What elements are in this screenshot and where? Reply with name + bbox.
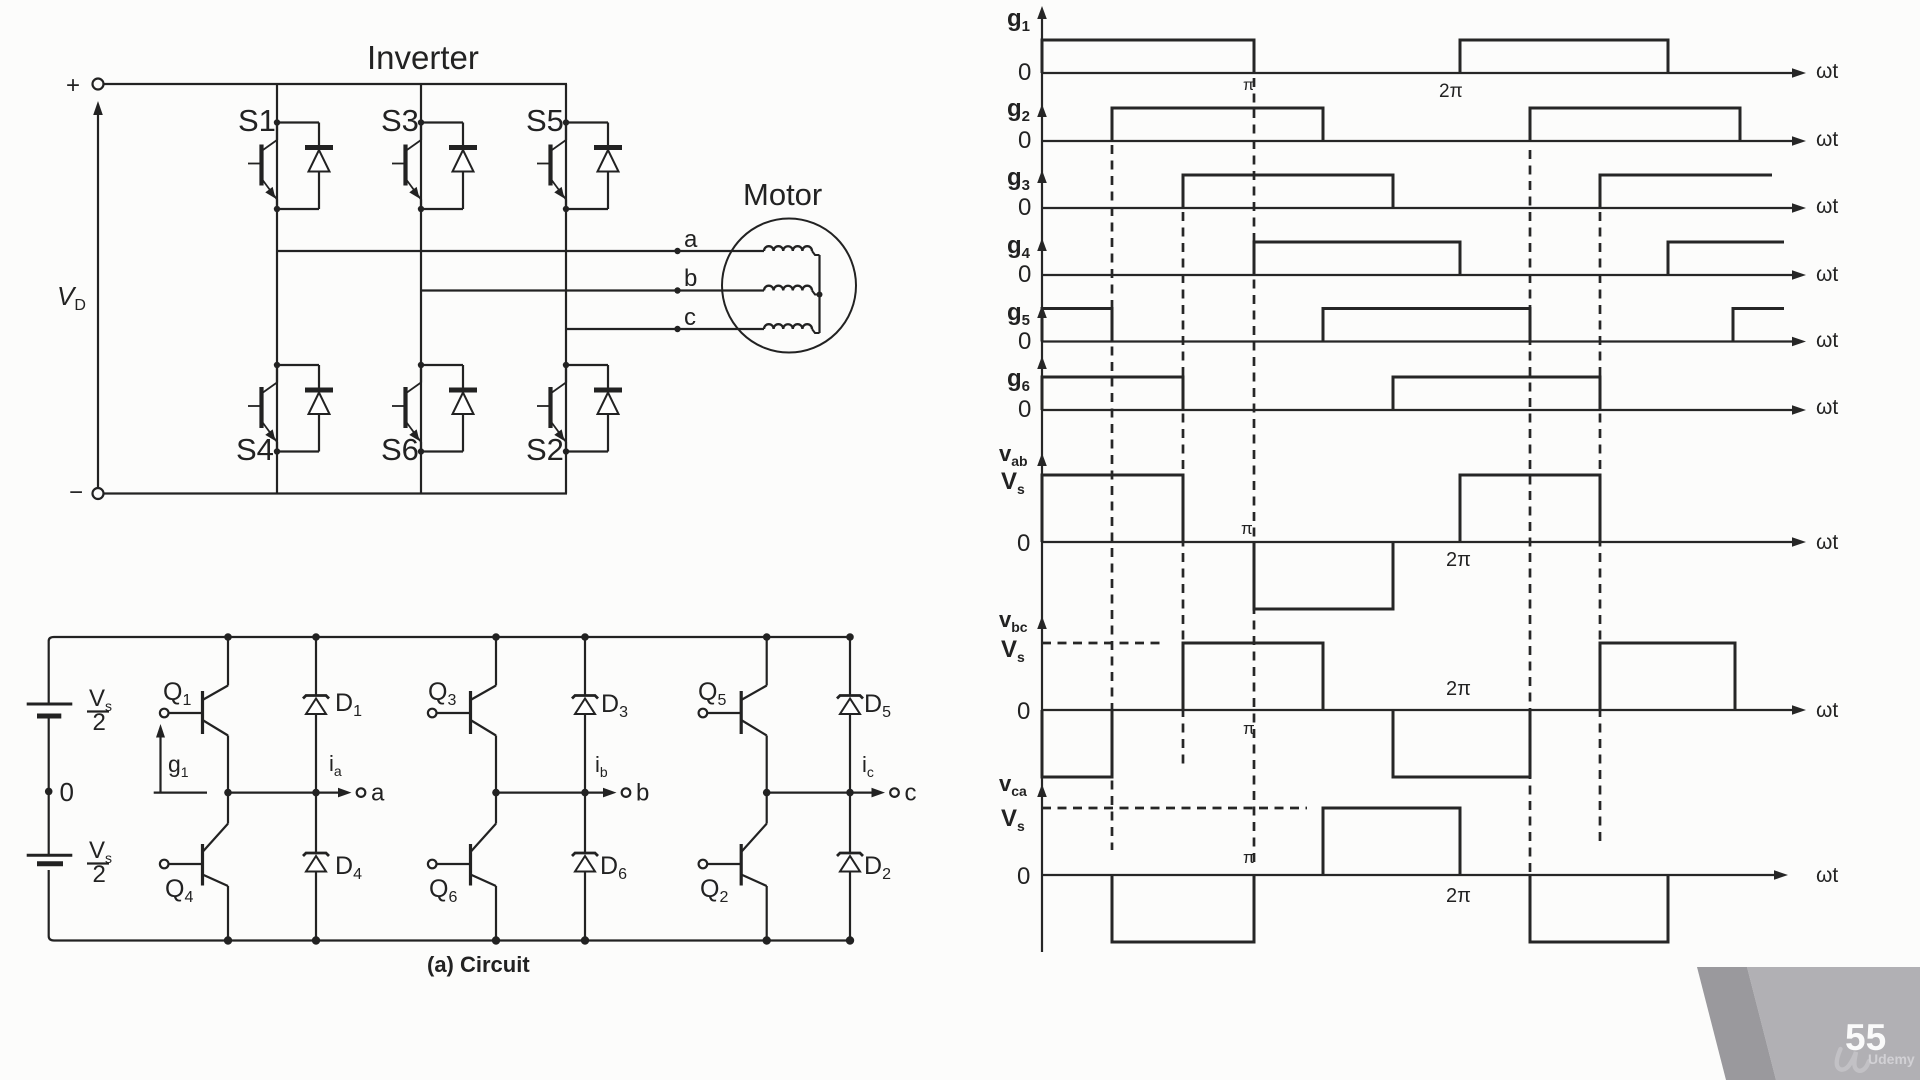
svg-text:2π: 2π [1446, 885, 1471, 907]
wire phase b mid node [496, 791, 585, 793]
freewheel diode of S3 [421, 123, 477, 210]
node b dot [674, 287, 680, 293]
motor winding b [764, 286, 820, 295]
svg-text:c: c [684, 304, 696, 331]
waveform vab [1042, 475, 1600, 609]
axis g5 [1042, 337, 1806, 347]
waveform g2 [1112, 108, 1740, 141]
wire phase b output [421, 289, 764, 291]
axis arrow up g5 [1037, 305, 1047, 318]
junction dots S2 [563, 362, 569, 455]
freewheel diode of S5 [566, 123, 622, 210]
wire bottom rail (circuit a) [49, 870, 850, 941]
svg-text:c: c [905, 780, 917, 807]
freewheel diode of S6 [421, 365, 477, 452]
svg-text:2π: 2π [1446, 549, 1471, 571]
axis arrow up g2 [1037, 104, 1047, 117]
axis arrow up vbc [1037, 616, 1047, 629]
label Vs/2 lower [87, 837, 112, 888]
svg-text:S1: S1 [238, 103, 276, 138]
svg-text:Inverter: Inverter [367, 39, 479, 76]
svg-text:ωt: ωt [1816, 699, 1838, 722]
waveform vbc [1042, 643, 1735, 777]
motor star point wire [818, 255, 820, 333]
switch S5 (IGBT) [537, 123, 566, 210]
svg-text:2π: 2π [1439, 81, 1463, 102]
node c dot [674, 326, 680, 332]
svg-text:0: 0 [1018, 396, 1031, 423]
axis arrow up vab [1037, 453, 1047, 466]
svg-text:b: b [684, 265, 697, 292]
axis g6 [1042, 405, 1806, 415]
motor star point dot [817, 292, 823, 298]
waveform vertical axis [1041, 10, 1043, 952]
svg-text:b: b [636, 780, 649, 807]
svg-text:0: 0 [1018, 261, 1031, 288]
axis g4 [1042, 270, 1806, 280]
svg-text:Motor: Motor [743, 177, 822, 212]
junction dots S1 [274, 119, 280, 212]
dashed vertical line at x=1530 [1529, 150, 1532, 940]
switch S1 (IGBT) [248, 123, 277, 210]
axis g1 [1042, 68, 1806, 78]
junction dots S4 [274, 362, 280, 455]
dashed vertical line at x=1600 [1599, 212, 1602, 842]
dashed Vs level line (vbc) [1042, 642, 1162, 645]
diode D5 [837, 637, 863, 793]
node dots phase b [492, 633, 589, 945]
transistor Q4 [160, 793, 228, 941]
inverter leg wire at x=421 [420, 84, 422, 494]
switch S6 (IGBT) [392, 365, 421, 452]
transistor Q1 [160, 637, 228, 793]
motor winding a [764, 246, 820, 255]
svg-text:S4: S4 [236, 432, 274, 467]
axis vab [1042, 537, 1806, 547]
svg-text:2: 2 [93, 709, 106, 736]
wire phase a mid node [228, 791, 316, 793]
svg-text:0: 0 [60, 777, 74, 807]
switch S4 (IGBT) [248, 365, 277, 452]
inverter leg wire at x=566 [565, 84, 567, 494]
motor circle [722, 219, 856, 353]
svg-text:−: − [69, 479, 83, 506]
Udemy swoosh logo [1837, 1049, 1869, 1071]
waveform g5 [1042, 309, 1784, 342]
terminal c [890, 780, 916, 807]
svg-text:0: 0 [1018, 328, 1031, 355]
svg-text:ωt: ωt [1816, 531, 1838, 554]
output arrow i_c [850, 788, 885, 798]
inverter leg wire at x=277 [276, 84, 278, 494]
waveform vca [1112, 808, 1668, 942]
diode D6 [572, 793, 598, 941]
switch S2 (IGBT) [537, 365, 566, 452]
junction dots S3 [418, 119, 424, 212]
svg-text:ωt: ωt [1816, 396, 1838, 419]
freewheel diode of S4 [277, 365, 333, 452]
junction dots S6 [418, 362, 424, 455]
output arrow i_b [585, 788, 617, 798]
wire phase c output [566, 328, 764, 330]
dashed vertical line at x=1254 [1253, 78, 1256, 866]
battery Vs/2 upper [27, 704, 73, 791]
svg-text:0: 0 [1017, 530, 1030, 557]
gate drive line g1 [154, 791, 207, 793]
transistor Q2 [699, 793, 767, 941]
svg-text:ωt: ωt [1816, 195, 1838, 218]
waveform g3 [1183, 175, 1772, 208]
switch S3 (IGBT) [392, 123, 421, 210]
axis vbc [1042, 705, 1806, 715]
svg-text:a: a [684, 226, 698, 253]
diode D4 [303, 793, 329, 941]
svg-text:π: π [1243, 77, 1254, 94]
node dots phase c [763, 633, 855, 945]
svg-text:ωt: ωt [1816, 60, 1838, 83]
freewheel diode of S1 [277, 123, 333, 210]
diode D3 [572, 637, 598, 793]
freewheel diode of S2 [566, 365, 622, 452]
svg-text:ωt: ωt [1816, 128, 1838, 151]
output arrow i_a [316, 788, 352, 798]
diode D1 [303, 637, 329, 793]
dashed Vs level line (vca) [1042, 807, 1307, 810]
svg-text:(a) Circuit: (a) Circuit [427, 952, 530, 977]
svg-text:0: 0 [1018, 59, 1031, 86]
axis arrow up g6 [1037, 356, 1047, 369]
wire phase c mid node [767, 791, 850, 793]
svg-text:ωt: ωt [1816, 329, 1838, 352]
waveform g1 [1042, 40, 1668, 73]
corner dark grey band [1697, 967, 1776, 1080]
terminal a [357, 780, 385, 807]
terminal b [622, 780, 650, 807]
axis arrow up vca [1037, 784, 1047, 797]
svg-text:ωt: ωt [1816, 263, 1838, 286]
axis g3 [1042, 203, 1806, 213]
wire top DC rail [104, 83, 568, 85]
wire bottom DC rail [104, 492, 568, 494]
corner light grey band [1747, 967, 1920, 1080]
junction dots S5 [563, 119, 569, 212]
svg-text:S6: S6 [381, 432, 419, 467]
motor winding c [764, 324, 820, 333]
svg-text:Udemy: Udemy [1868, 1051, 1915, 1067]
waveform g4 [1254, 242, 1784, 275]
gate arrow g1 [156, 724, 165, 793]
battery Vs/2 lower [27, 791, 73, 863]
source arrow V_D [93, 101, 103, 488]
axis g2 [1042, 136, 1806, 146]
axis arrow up g1 [1037, 6, 1047, 19]
node dots phase a [224, 633, 320, 945]
axis vca [1042, 870, 1788, 880]
svg-text:ωt: ωt [1816, 864, 1838, 887]
transistor Q6 [428, 793, 496, 941]
svg-text:S3: S3 [381, 103, 419, 138]
node a dot [674, 248, 680, 254]
diode D2 [837, 793, 863, 941]
svg-text:a: a [371, 780, 385, 807]
node 0 dot [45, 788, 53, 796]
svg-text:S5: S5 [526, 103, 564, 138]
svg-text:0: 0 [1017, 698, 1030, 725]
wire phase a output [277, 250, 764, 252]
axis arrow up g3 [1037, 170, 1047, 183]
transistor Q3 [428, 637, 496, 793]
svg-text:2π: 2π [1446, 678, 1471, 700]
svg-text:+: + [66, 72, 80, 99]
svg-text:0: 0 [1017, 863, 1030, 890]
svg-text:0: 0 [1018, 127, 1031, 154]
- terminal [69, 479, 104, 506]
dashed vertical line at x=1183 [1182, 212, 1185, 768]
transistor Q5 [699, 637, 767, 793]
svg-text:0: 0 [1018, 194, 1031, 221]
waveform g6 [1042, 377, 1600, 410]
svg-text:S2: S2 [526, 432, 564, 467]
svg-text:2: 2 [93, 861, 106, 888]
wire top rail (circuit a) [49, 637, 850, 704]
dashed vertical line at x=1112 [1111, 145, 1114, 850]
axis arrow up g4 [1037, 238, 1047, 251]
label Vs/2 upper [87, 685, 112, 736]
svg-text:π: π [1241, 519, 1253, 538]
+ terminal [66, 72, 104, 99]
